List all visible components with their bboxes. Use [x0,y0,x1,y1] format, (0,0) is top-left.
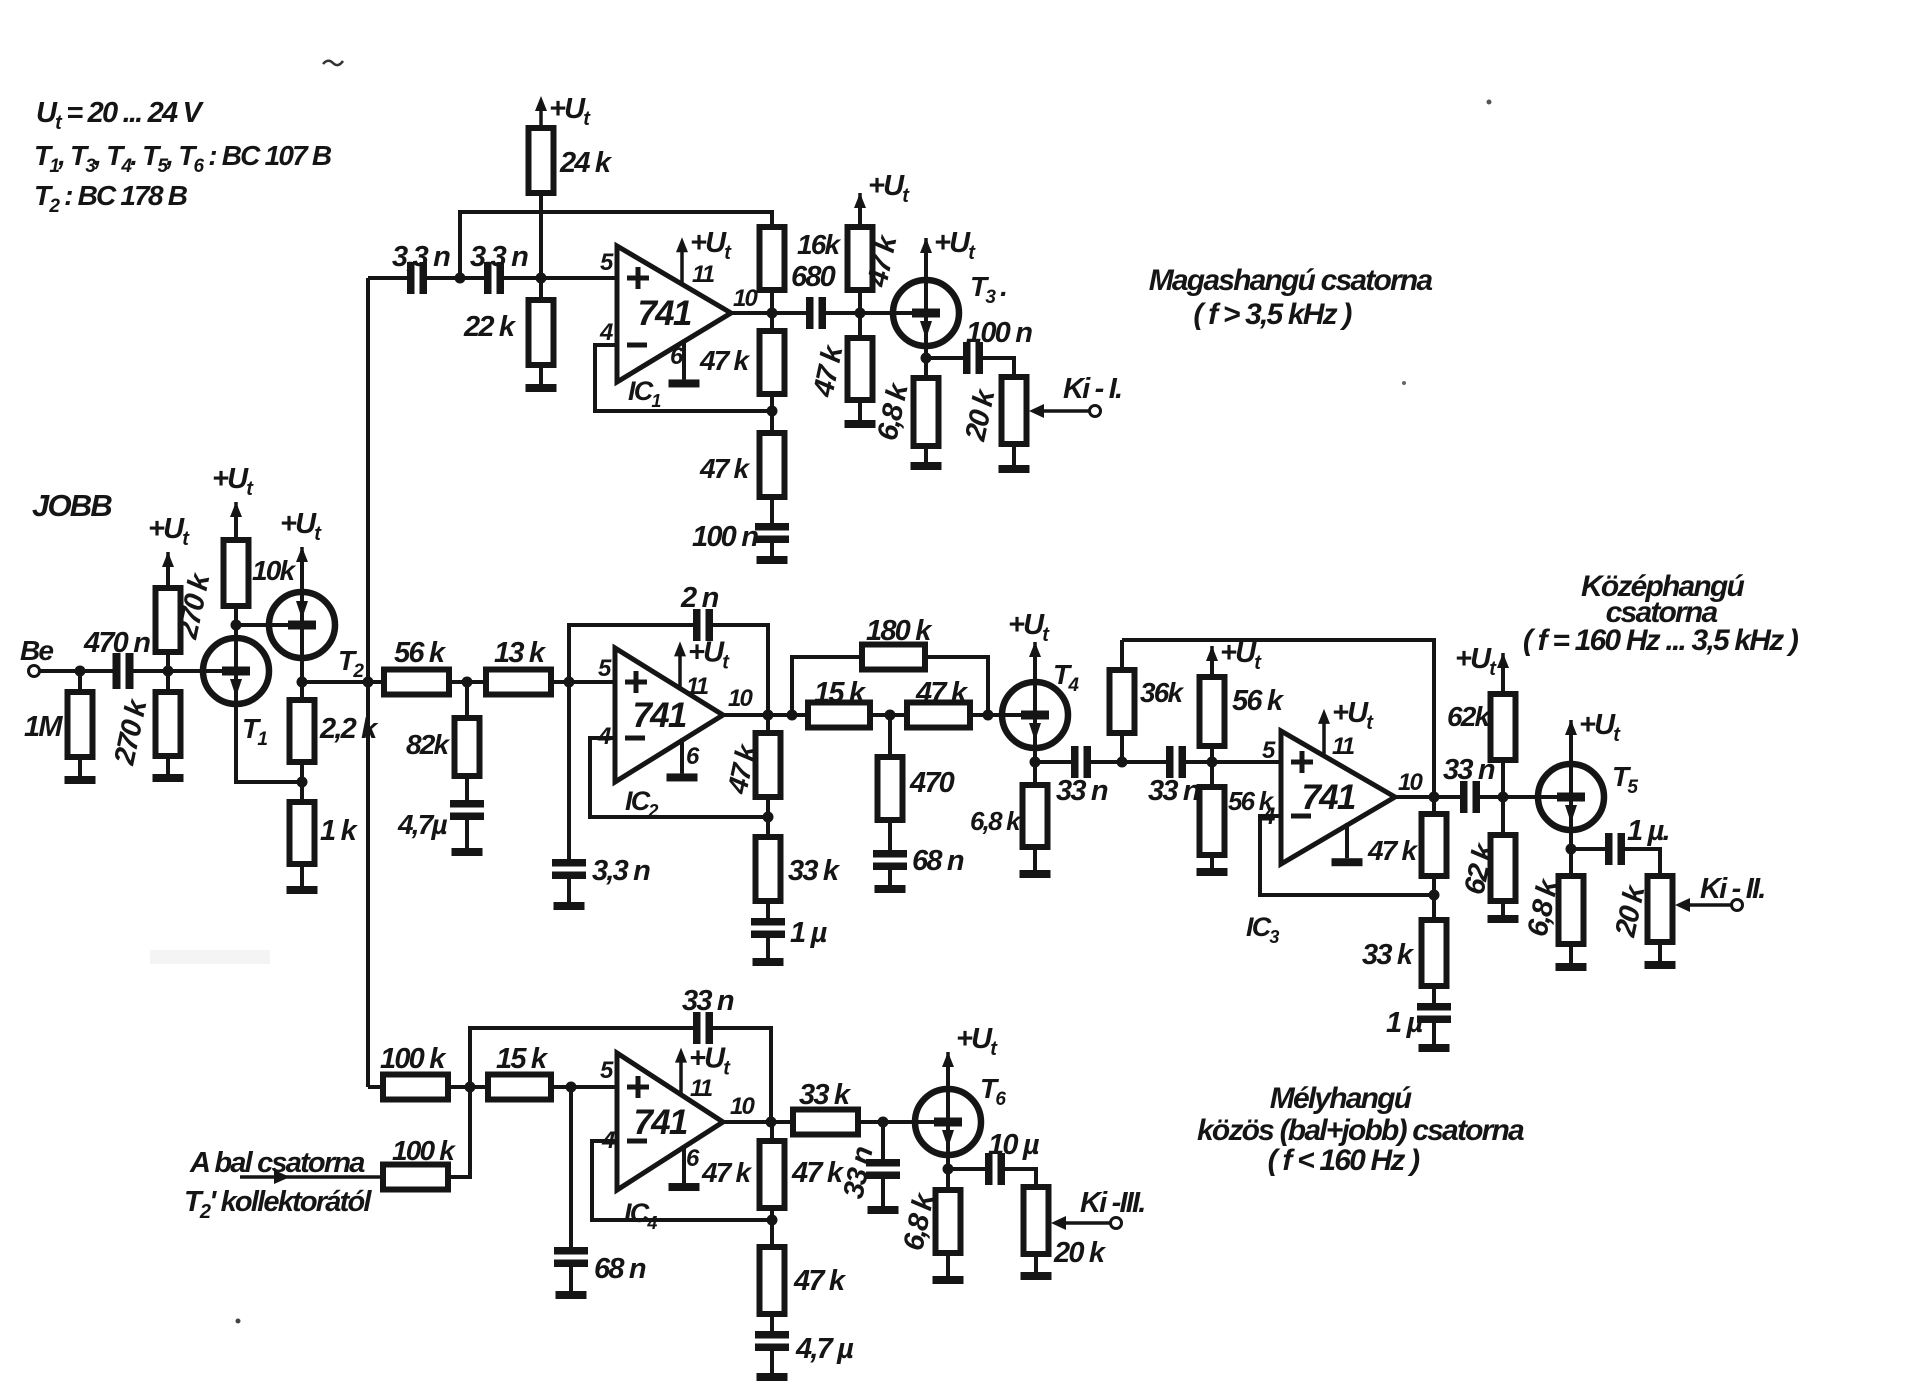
svg-text:10: 10 [728,685,754,712]
svg-text:13 k: 13 k [494,637,547,669]
svg-text:Magashangú csatorna: Magashangú csatorna [1149,264,1433,297]
svg-text:1 µ.: 1 µ. [1627,815,1669,847]
svg-text:47 k: 47 k [793,1265,847,1297]
svg-text:56 k: 56 k [1232,685,1285,717]
svg-text:( f = 160 Hz ... 3,5 kHz ): ( f = 160 Hz ... 3,5 kHz ) [1523,624,1799,657]
svg-text:47 k: 47 k [915,677,969,709]
svg-text:741: 741 [633,696,686,735]
svg-text:470 n: 470 n [83,627,150,659]
svg-text:JOBB: JOBB [32,488,112,523]
svg-text:Ki - II.: Ki - II. [1700,873,1765,905]
svg-text:36k: 36k [1140,677,1185,708]
svg-text:82k: 82k [406,729,451,760]
svg-text:47 k: 47 k [1367,835,1419,866]
svg-text:2 n: 2 n [680,582,719,614]
svg-text:1 k: 1 k [320,815,359,847]
svg-text:33 k: 33 k [788,855,841,887]
svg-text:56 k: 56 k [394,637,447,669]
svg-text:4,7µ: 4,7µ [397,809,448,840]
svg-text:1 µ: 1 µ [790,917,828,949]
svg-text:1 µ: 1 µ [1386,1007,1424,1039]
svg-text:10: 10 [730,1093,756,1120]
svg-text:Mélyhangú: Mélyhangú [1270,1082,1412,1115]
svg-text:680: 680 [791,261,836,293]
svg-text:( f < 160 Hz ): ( f < 160 Hz ) [1268,1144,1420,1177]
svg-text:741: 741 [634,1103,687,1142]
svg-text:741: 741 [638,294,691,333]
svg-text:24 k: 24 k [559,147,613,179]
svg-text:33 k: 33 k [1362,939,1415,971]
svg-text:11: 11 [692,261,715,288]
svg-text:47 k: 47 k [699,453,751,484]
svg-text:1M: 1M [24,711,63,743]
svg-text:10k: 10k [252,555,297,586]
svg-text:33 n: 33 n [1056,775,1108,807]
svg-text:11: 11 [690,1075,713,1102]
svg-text:741: 741 [1302,778,1355,817]
svg-text:47 k: 47 k [699,345,751,376]
svg-text:470: 470 [909,767,955,799]
svg-text:Be: Be [20,635,53,666]
svg-text:33 n: 33 n [1148,775,1200,807]
svg-text:3,3 n: 3,3 n [592,855,650,887]
svg-text:Ut​ = 20 ... 24 V: Ut​ = 20 ... 24 V [36,97,205,134]
svg-text:11: 11 [686,673,709,700]
svg-text:Ki - I.: Ki - I. [1063,373,1121,405]
svg-text:4: 4 [599,319,613,346]
svg-text:10: 10 [1398,769,1424,796]
svg-text:33 k: 33 k [799,1079,852,1111]
svg-text:33 n: 33 n [682,985,734,1017]
svg-text:2,2 k: 2,2 k [319,713,379,745]
svg-text:100 n: 100 n [692,521,758,553]
svg-text:15 k: 15 k [496,1043,549,1075]
svg-text:T2​' kollektorától: T2​' kollektorától [184,1186,372,1223]
svg-text:11: 11 [1332,733,1355,760]
svg-text:10: 10 [733,285,759,312]
svg-text:68 n: 68 n [594,1253,646,1285]
svg-text:33 n: 33 n [1443,754,1495,786]
svg-text:4,7 µ: 4,7 µ [795,1333,854,1365]
svg-text:Ki -III.: Ki -III. [1080,1187,1145,1219]
svg-text:6,8 k: 6,8 k [970,806,1022,836]
svg-text:22 k: 22 k [463,311,517,343]
svg-text:68 n: 68 n [912,845,964,877]
svg-text:10 µ: 10 µ [988,1129,1040,1161]
svg-text:180 k: 180 k [866,615,933,647]
svg-text:47 k: 47 k [791,1157,845,1189]
svg-text:20 k: 20 k [1053,1237,1107,1269]
svg-text:100 k: 100 k [380,1043,447,1075]
svg-text:3,3 n: 3,3 n [392,241,450,273]
svg-text:62k: 62k [1447,701,1492,732]
svg-text:47 k: 47 k [701,1157,753,1188]
svg-text:16k: 16k [797,229,842,260]
svg-text:( f > 3,5 kHz ): ( f > 3,5 kHz ) [1193,298,1352,331]
svg-text:100 k: 100 k [392,1135,456,1166]
svg-text:15 k: 15 k [814,677,867,709]
svg-text:100 n: 100 n [966,317,1032,349]
svg-text:közös (bal+jobb) csatorna: közös (bal+jobb) csatorna [1197,1114,1524,1147]
svg-text:3,3 n: 3,3 n [470,241,528,273]
